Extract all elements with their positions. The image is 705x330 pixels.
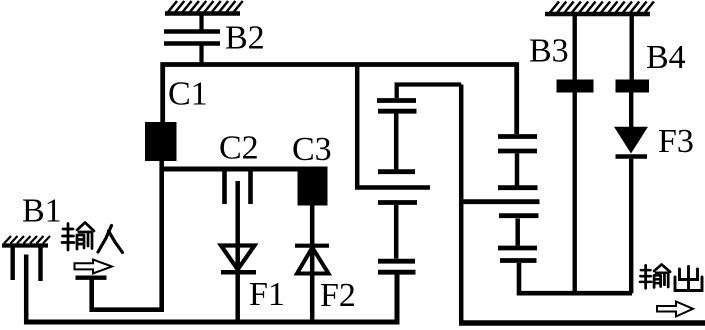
wire gearset1 shafts: [394, 114, 399, 259]
ground left (B1 anchor): [2, 236, 50, 246]
wire long vertical (bracket to bottom right bus): [459, 85, 464, 322]
svg-text:F3: F3: [658, 123, 694, 160]
wire gearset1 sun shaft to bottom-left bus: [24, 275, 397, 323]
one-way clutch F2: [295, 246, 329, 274]
clutch C1: [145, 122, 177, 161]
ground top-left (B2 anchor): [165, 1, 243, 14]
wire gearset1 left riser and carrier link: [357, 65, 430, 188]
wire gearset2 carrier link: [461, 199, 539, 204]
svg-text:C1: C1: [168, 76, 208, 113]
planetary gearset 1 plates: [377, 101, 417, 273]
wire B1 hub to bottom bus: [24, 255, 29, 325]
svg-text:F1: F1: [249, 276, 285, 313]
output arrow: [657, 302, 693, 317]
svg-text:B4: B4: [646, 39, 686, 76]
clutch C3: [298, 168, 328, 206]
wire top bus: [163, 65, 517, 135]
svg-text:B2: B2: [225, 20, 265, 57]
label input (hanzi 输入): [62, 223, 123, 253]
svg-text:B1: B1: [22, 193, 62, 230]
wire gearset2 output elbow: [519, 263, 632, 293]
brake B3: [573, 14, 577, 291]
svg-text:C2: C2: [219, 130, 259, 167]
wire C2/C3 drum: [161, 167, 328, 172]
brake B4: [630, 14, 634, 80]
svg-text:B3: B3: [529, 33, 569, 70]
label output (hanzi 输出): [640, 264, 702, 290]
clutch C2: [225, 169, 251, 204]
one-way clutch F3: [614, 127, 648, 154]
wire B4 to F3: [629, 93, 633, 128]
wire gearset1 ring bracket: [397, 85, 462, 99]
ground top-right (B3/B4 anchor): [545, 2, 654, 15]
wire F3 to output elbow: [629, 159, 633, 294]
wire C2 hub shaft: [235, 181, 240, 320]
svg-text:F2: F2: [320, 277, 356, 314]
input shaft flange: [76, 276, 107, 280]
wire gearset2 shafts: [515, 154, 520, 246]
one-way clutch F1: [221, 246, 256, 273]
brake B1: [13, 246, 41, 282]
planetary gearset 2 plates: [498, 137, 539, 261]
input arrow: [75, 260, 113, 274]
wire bottom-right bus: [459, 320, 705, 326]
wire C1 to input shaft: [92, 161, 162, 310]
brake B2: [164, 14, 220, 65]
svg-text:C3: C3: [292, 131, 332, 168]
wire C3 hub shaft: [310, 206, 315, 320]
